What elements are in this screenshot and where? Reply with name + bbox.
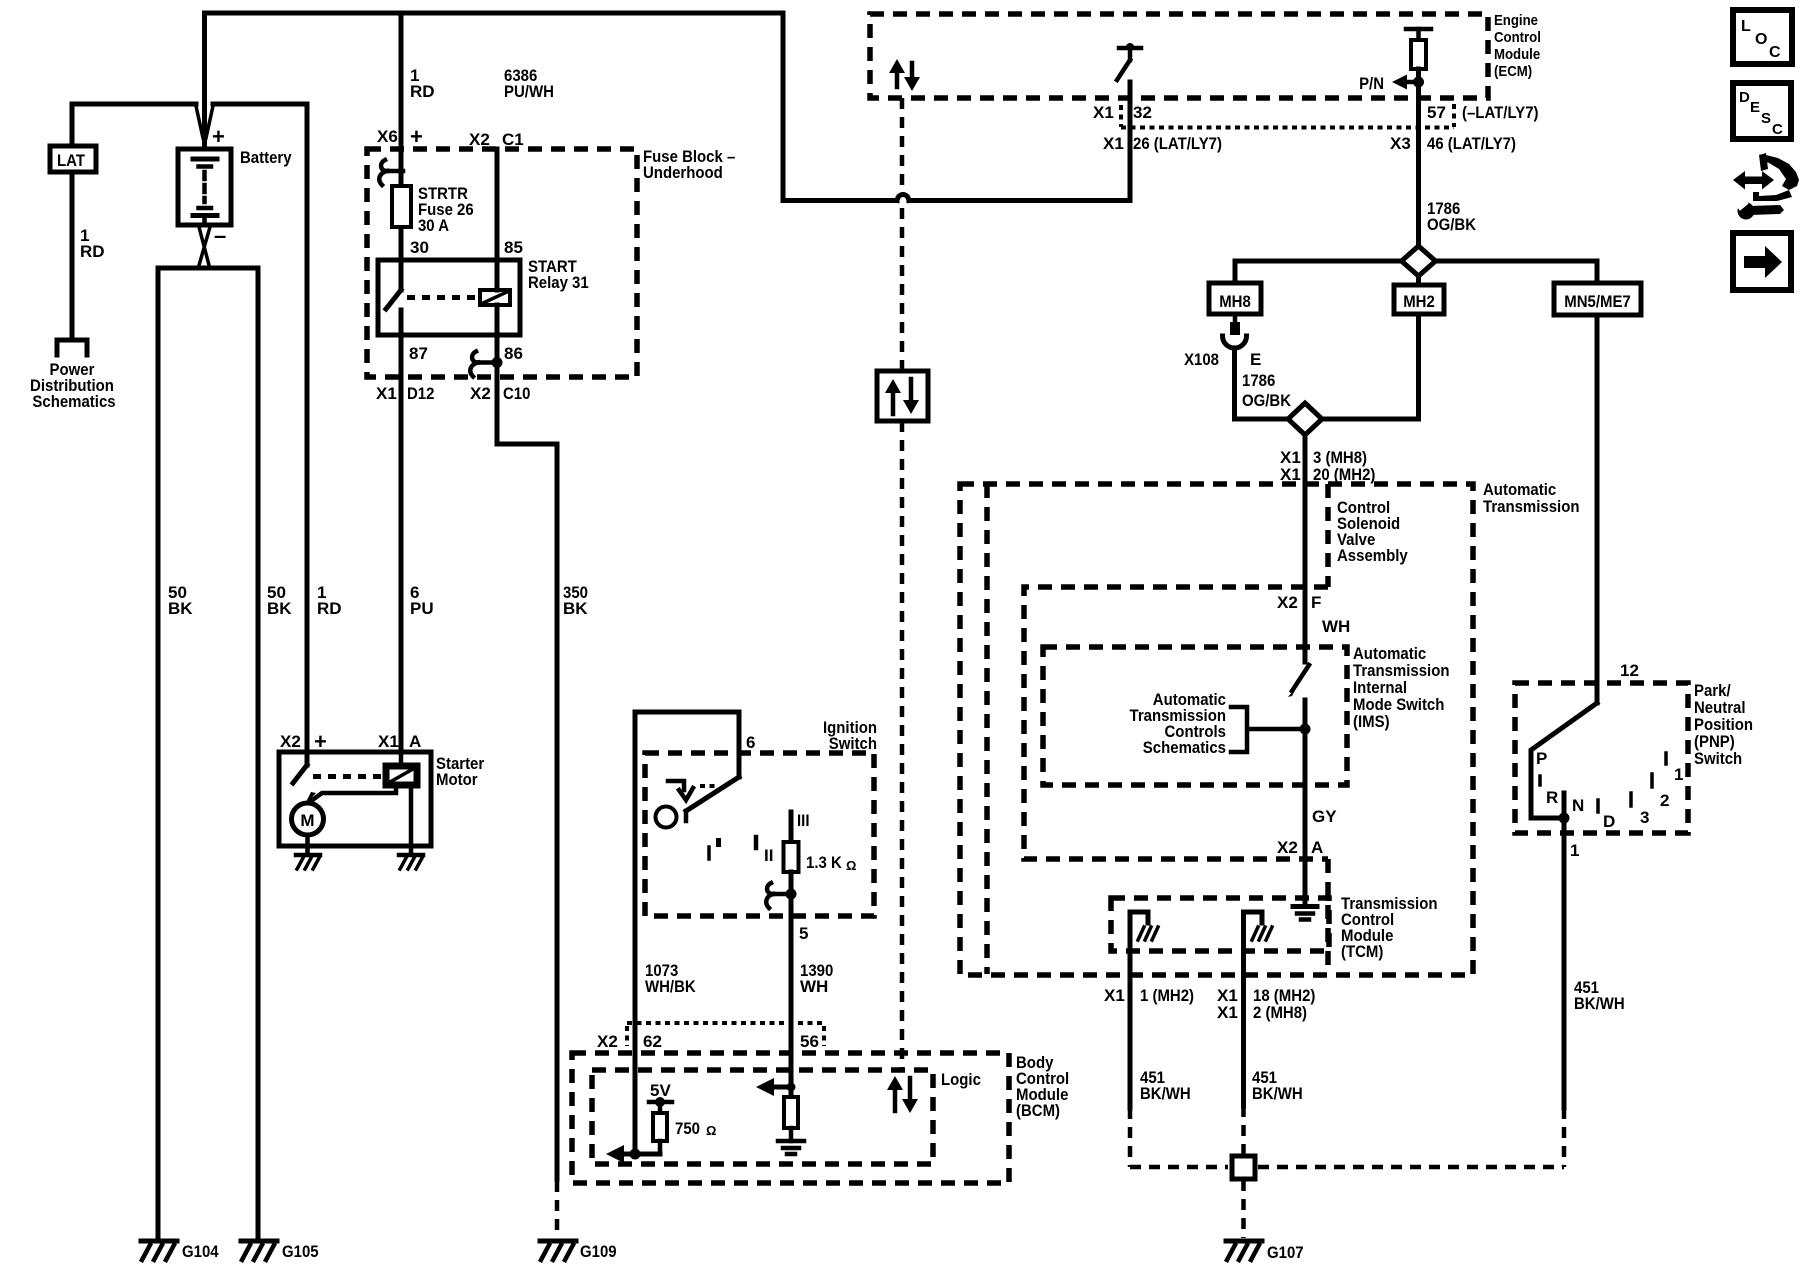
connector X108 inline [1223, 314, 1247, 348]
svg-text:RD: RD [80, 242, 105, 261]
BCM logic dashed box [592, 1070, 933, 1164]
label X1 32 (pin) [1093, 103, 1152, 122]
ignition key symbol [656, 781, 718, 828]
svg-text:+: + [314, 729, 327, 754]
control solenoid valve assembly dashed outline [987, 484, 1328, 974]
svg-text:Schematics: Schematics [1143, 738, 1226, 757]
label Transmission Control Module (TCM) [1341, 894, 1438, 961]
label X2 (BCM connector) [597, 1032, 618, 1051]
serial data dashed line from ECM [900, 98, 905, 371]
svg-text:Assembly: Assembly [1337, 546, 1408, 565]
svg-text:S: S [1761, 110, 1771, 127]
svg-text:BK: BK [563, 599, 588, 618]
svg-text:BK/WH: BK/WH [1252, 1084, 1303, 1103]
label 50 BK (G105 wire) [267, 583, 292, 618]
wire LAT horizontal y104 [72, 102, 307, 107]
label Engine Control Module (ECM) [1494, 12, 1541, 80]
wire 1 RD to starter X2 x307 [305, 104, 310, 752]
svg-text:C10: C10 [503, 384, 530, 403]
label 1786 OG/BK (lower) [1242, 371, 1292, 410]
label pin 56 [800, 1032, 819, 1051]
label X2 A (pin) [1277, 838, 1323, 857]
label X1 26 (LAT/LY7) (pin) [1103, 134, 1222, 153]
svg-text:X1: X1 [1103, 134, 1124, 153]
svg-text:MN5/ME7: MN5/ME7 [1564, 292, 1631, 311]
svg-text:Switch: Switch [1694, 749, 1742, 768]
svg-text:1: 1 [1674, 765, 1683, 784]
svg-text:G104: G104 [182, 1242, 219, 1261]
serial data up/down arrows in ECM [889, 59, 920, 91]
svg-text:P/N: P/N [1359, 74, 1384, 93]
svg-text:X2: X2 [597, 1032, 618, 1051]
svg-text:Transmission: Transmission [1483, 497, 1580, 516]
wire IMS output x1305 [1303, 700, 1308, 905]
svg-text:1.3 K: 1.3 K [806, 853, 842, 872]
svg-text:X1: X1 [1093, 103, 1114, 122]
svg-text:Motor: Motor [436, 770, 478, 789]
connector hook at X6 [379, 160, 403, 185]
ground G107 [1226, 1241, 1304, 1262]
label pin 62 [643, 1032, 662, 1051]
switch crank request inside ECM [1117, 43, 1141, 80]
svg-text:32: 32 [1133, 103, 1152, 122]
label Ignition Switch [823, 718, 877, 753]
label pin 30 [410, 238, 429, 257]
svg-text:L: L [1741, 18, 1751, 35]
svg-text:RD: RD [317, 599, 342, 618]
svg-text:–: – [214, 223, 226, 248]
label 350 BK [563, 583, 588, 618]
label X2 C10 (pin) [470, 384, 530, 403]
contact tick 3 [1629, 793, 1633, 806]
connector MH8 box [1209, 283, 1261, 314]
wire 50 BK to G104 [156, 268, 161, 1240]
label Automatic Transmission Internal Mode Switch (IMS) [1353, 644, 1450, 731]
starter motor box [279, 752, 431, 853]
svg-text:LAT: LAT [57, 151, 86, 170]
svg-text:Module: Module [1494, 46, 1540, 63]
ground starter motor case left [296, 855, 320, 869]
wire MH2 to lower splice [1416, 314, 1421, 419]
node PNP N contact [1559, 793, 1570, 824]
svg-text:30: 30 [410, 238, 429, 257]
resistor 750 Ohm [653, 1113, 667, 1154]
wire 451 BK/WH from PNP x1564 [1562, 818, 1567, 1108]
svg-text:RD: RD [410, 82, 435, 101]
svg-text:P: P [1536, 749, 1547, 768]
svg-text:56: 56 [800, 1032, 819, 1051]
svg-text:X2: X2 [469, 130, 490, 149]
node battery + clamp V [196, 106, 213, 138]
label 1390 WH [800, 961, 833, 996]
svg-text:X6: X6 [377, 127, 398, 146]
icon forward arrow box [1733, 233, 1791, 290]
svg-text:D12: D12 [407, 384, 434, 403]
svg-text:G105: G105 [282, 1242, 319, 1261]
svg-text:C: C [1772, 121, 1783, 138]
wire BCM signal out with left arrow [606, 1145, 660, 1163]
svg-text:III: III [797, 811, 810, 830]
svg-text:1: 1 [1570, 841, 1579, 860]
ground G104 [141, 1241, 219, 1261]
label X108 E [1184, 350, 1261, 369]
label 6 PU [410, 583, 434, 618]
svg-text:750: 750 [675, 1119, 700, 1138]
label battery plus [212, 124, 225, 149]
label X2 F (pin) [1277, 593, 1321, 612]
connector hook below resistor [766, 883, 796, 908]
ground TCM case left [1138, 927, 1158, 940]
ECM dashed box [870, 14, 1488, 98]
label X1 D12 (pin) [376, 384, 434, 403]
svg-text:X2: X2 [1277, 838, 1298, 857]
svg-text:C1: C1 [502, 130, 524, 149]
label 1 RD (fuse feed) [410, 66, 435, 101]
label X1 18 (MH2) / X1 2 (MH8) (pins) [1217, 986, 1315, 1022]
resistor 1.3 KOhm [784, 812, 799, 916]
wire ground net dashed middle drop [1241, 1106, 1246, 1158]
svg-text:85: 85 [504, 238, 523, 257]
svg-text:X2: X2 [1277, 593, 1298, 612]
svg-text:GY: GY [1312, 807, 1337, 826]
label 1.3 KOhm [806, 853, 856, 873]
svg-text:MH2: MH2 [1403, 292, 1435, 311]
connector MH2 box [1394, 285, 1444, 314]
svg-text:1 (MH2): 1 (MH2) [1140, 986, 1194, 1005]
label 6386 PU/WH [504, 66, 554, 101]
label N [1572, 796, 1584, 815]
svg-text:MH8: MH8 [1219, 292, 1251, 311]
label pin 6 [746, 733, 755, 752]
label 3 [1640, 808, 1649, 827]
label Logic [941, 1070, 981, 1089]
serial data dashed line to BCM [900, 421, 905, 1070]
contact tick 1 [1664, 753, 1668, 764]
node P/N arrow inside ECM [1359, 74, 1424, 93]
label Park/Neutral Position (PNP) Switch [1694, 681, 1753, 768]
label STRTR Fuse 26 30 A [418, 184, 474, 235]
svg-text:62: 62 [643, 1032, 662, 1051]
ground TCM case right [1252, 927, 1272, 940]
wire 350 BK vertical x557 [555, 444, 560, 1179]
svg-text:E: E [1750, 99, 1760, 116]
BCM outer dashed box [572, 1053, 1009, 1183]
svg-text:X1: X1 [376, 384, 397, 403]
svg-text:Control: Control [1494, 29, 1541, 46]
label D [1603, 812, 1615, 831]
label II [764, 846, 773, 865]
wire ground net dashed horizontal bus [1130, 1165, 1564, 1170]
battery B1 [178, 149, 231, 225]
label GY [1312, 807, 1337, 826]
icon DESC box [1733, 83, 1791, 139]
wire 1 RD / 6 PU main vertical x401 [399, 13, 404, 752]
wire MN5/ME7 drop [1595, 261, 1600, 283]
splice block S107 [1232, 1156, 1255, 1179]
label 57 (-LAT/LY7) (pin) [1427, 103, 1539, 122]
ground starter solenoid case right [399, 855, 423, 869]
splice diamond lower [1288, 403, 1322, 435]
switch PNP wiper P contact [1531, 703, 1597, 818]
label III [797, 811, 810, 830]
svg-text:WH: WH [1322, 617, 1350, 636]
svg-text:F: F [1311, 593, 1321, 612]
label Body Control Module (BCM) [1016, 1053, 1069, 1120]
ground TCM internal earth [1293, 907, 1317, 920]
label WH [1322, 617, 1350, 636]
connector X2 strip at BCM [627, 1023, 824, 1046]
svg-text:G109: G109 [580, 1242, 617, 1261]
svg-text:A: A [409, 732, 421, 751]
switch IMS blade [1288, 665, 1309, 697]
svg-text:2 (MH8): 2 (MH8) [1253, 1003, 1307, 1022]
svg-text:PU/WH: PU/WH [504, 82, 554, 101]
label R [1546, 788, 1558, 807]
svg-text:Relay 31: Relay 31 [528, 273, 589, 292]
svg-text:87: 87 [409, 344, 428, 363]
wire MH8 drop [1233, 261, 1238, 283]
svg-text:OG/BK: OG/BK [1242, 391, 1292, 410]
label X3 46 (LAT/LY7) (pin) [1390, 134, 1516, 153]
contact tick 2 [1650, 774, 1654, 787]
svg-text:Underhood: Underhood [643, 163, 723, 182]
svg-text:D: D [1739, 89, 1750, 106]
contact tick D [1596, 800, 1600, 812]
label 50 BK (G104 wire) [168, 583, 193, 618]
label 2 [1660, 791, 1669, 810]
wire splice to G107 dashed [1241, 1180, 1246, 1238]
serial data box with arrows [877, 371, 928, 421]
ignition contact tick II [754, 837, 759, 848]
automatic transmission outer dashed box [960, 484, 1473, 975]
connector LAT [50, 146, 96, 172]
label X1 1 (MH2) (pin) [1104, 986, 1194, 1005]
svg-text:2: 2 [1660, 791, 1669, 810]
svg-text:BK/WH: BK/WH [1140, 1084, 1191, 1103]
wire TCM ground 18 (MH2) 2 (MH8) [1244, 912, 1263, 1106]
relay START Relay 31 [378, 260, 520, 335]
label battery minus [214, 223, 226, 248]
wire ground net dashed right drop [1562, 1108, 1567, 1167]
label X2 C1 (pin) [469, 130, 524, 149]
svg-text:C: C [1769, 44, 1781, 61]
label 750 Ohm [675, 1119, 716, 1138]
svg-text:BK/WH: BK/WH [1574, 994, 1625, 1013]
svg-text:Engine: Engine [1494, 12, 1538, 29]
label X1 A (starter pin) [378, 732, 421, 751]
label 451 BK/WH (left) [1140, 1068, 1191, 1103]
TCM dashed box [1111, 898, 1329, 951]
label 1073 WH/BK [645, 961, 696, 996]
svg-text:X2: X2 [470, 384, 491, 403]
svg-text:BK: BK [267, 599, 292, 618]
wire ignition switch feed vertical x635 [633, 712, 638, 1154]
label pin 86 [504, 344, 523, 363]
icon LOC box [1733, 10, 1792, 64]
label Starter Motor [436, 754, 485, 789]
node battery - clamp X [199, 227, 211, 267]
connector hook and junction at pin 86 [470, 352, 502, 377]
svg-text:A: A [1311, 838, 1323, 857]
wire TCM ground 1 (MH2) [1130, 912, 1148, 1108]
label 1 (position) [1674, 765, 1683, 784]
wire ECM pin 26 vertical x1130 [1128, 82, 1133, 201]
label START Relay 31 [528, 257, 589, 292]
svg-text:OG/BK: OG/BK [1427, 215, 1477, 234]
svg-text:(TCM): (TCM) [1341, 942, 1383, 961]
label 451 BK/WH (middle) [1252, 1068, 1303, 1103]
ignition contact tick upper [716, 838, 721, 847]
svg-text:D: D [1603, 812, 1615, 831]
wire battery negative bus y268 [158, 266, 258, 271]
label 12 (pin) [1620, 661, 1639, 680]
svg-text:3: 3 [1640, 808, 1649, 827]
wire 6386 PU/WH vertical drop at x783 and run to ECM pin [783, 13, 1130, 201]
svg-text:+: + [212, 124, 225, 149]
svg-text:X1: X1 [378, 732, 399, 751]
svg-text:Ω: Ω [846, 858, 856, 873]
svg-text:X108: X108 [1184, 350, 1219, 369]
ground G105 [241, 1241, 319, 1261]
svg-text:O: O [1755, 31, 1767, 48]
svg-text:30 A: 30 A [418, 216, 449, 235]
label 451 BK/WH (right) [1574, 978, 1625, 1013]
ignition switch dashed box [645, 753, 874, 916]
svg-text:20 (MH2): 20 (MH2) [1313, 465, 1375, 484]
svg-text:Logic: Logic [941, 1070, 981, 1089]
node IMS junction [1300, 724, 1311, 735]
svg-text:+: + [410, 124, 423, 149]
svg-text:Switch: Switch [829, 734, 877, 753]
wire splice bus y261 [1235, 259, 1597, 264]
wire hop over dashed line at x903 [897, 195, 909, 201]
bracket to controls schematics [1231, 707, 1303, 752]
svg-text:(BCM): (BCM) [1016, 1101, 1060, 1120]
label 1 RD (starter wire) [317, 583, 342, 618]
svg-text:57: 57 [1427, 103, 1446, 122]
wire X108 to lower splice [1235, 348, 1419, 419]
label X1 3 (MH8) / X1 20 (MH2) (pins) [1280, 448, 1375, 484]
svg-text:M: M [300, 811, 314, 830]
resistor BCM pull-down [784, 1087, 798, 1141]
ground G109 [540, 1241, 617, 1261]
svg-text:E: E [1250, 350, 1261, 369]
wire LAT vertical x72 [70, 104, 75, 337]
svg-text:(ECM): (ECM) [1494, 63, 1532, 80]
wire ground net dashed left drop [1128, 1108, 1133, 1167]
svg-text:Schematics: Schematics [32, 392, 115, 411]
label pin 87 [409, 344, 428, 363]
wire MH2 drop [1416, 261, 1421, 285]
splice diamond upper [1402, 246, 1436, 276]
fuse STRTR Fuse 26 30A [392, 186, 411, 227]
svg-text:X1: X1 [1104, 986, 1125, 1005]
svg-text:X3: X3 [1390, 134, 1411, 153]
ignition switch housing solid box [635, 712, 739, 821]
label 1 (PNP pin) [1570, 841, 1579, 860]
supply 5V node [649, 1097, 672, 1113]
label pin 85 [504, 238, 523, 257]
svg-text:1786: 1786 [1242, 371, 1275, 390]
svg-text:BK: BK [168, 599, 193, 618]
label 1786 OG/BK (upper) [1427, 199, 1477, 234]
svg-text:5V: 5V [650, 1081, 671, 1100]
IMS dashed box [1043, 647, 1347, 785]
label Battery [240, 148, 292, 167]
connector tie dotted line pins 32-57 [1121, 104, 1454, 128]
svg-text:X1: X1 [1280, 465, 1301, 484]
label Automatic Transmission [1483, 480, 1580, 516]
svg-text:WH/BK: WH/BK [645, 977, 696, 996]
svg-text:G107: G107 [1267, 1243, 1304, 1262]
wire battery positive post vertical [202, 13, 207, 149]
label 5V [650, 1081, 671, 1100]
label P [1536, 749, 1547, 768]
svg-text:WH: WH [800, 977, 828, 996]
svg-text:26 (LAT/LY7): 26 (LAT/LY7) [1133, 134, 1222, 153]
svg-text:12: 12 [1620, 661, 1639, 680]
label Fuse Block - Underhood [643, 147, 735, 182]
label X6 + (pin) [377, 124, 423, 149]
svg-text:X1: X1 [1217, 1003, 1238, 1022]
label X2 + (starter pin) [280, 729, 327, 754]
svg-text:Ω: Ω [706, 1123, 716, 1138]
fuse block underhood dashed box [367, 149, 637, 377]
wire 50 BK to G105 [256, 268, 261, 1240]
resistor ECM pull-up [1406, 29, 1431, 246]
svg-text:N: N [1572, 796, 1584, 815]
ignition contact tick I [707, 847, 711, 859]
svg-text:46 (LAT/LY7): 46 (LAT/LY7) [1427, 134, 1516, 153]
label Control Solenoid Valve Assembly [1337, 498, 1408, 565]
svg-text:X2: X2 [280, 732, 301, 751]
wire 6386 PU/WH C1 vertical x497 [497, 149, 557, 444]
ground BCM internal [778, 1141, 804, 1154]
svg-text:(–LAT/LY7): (–LAT/LY7) [1462, 103, 1539, 122]
svg-text:5: 5 [799, 924, 808, 943]
icon wrench with arrows [1733, 153, 1799, 220]
svg-text:(IMS): (IMS) [1353, 712, 1390, 731]
wire 1390 WH x791 to BCM [789, 916, 794, 1087]
wire 350 BK dashed segment to G109 [555, 1181, 560, 1238]
svg-text:PU: PU [410, 599, 434, 618]
label 1 RD (LAT wire) [80, 226, 105, 261]
PNP switch dashed box [1515, 683, 1688, 833]
connector MN5/ME7 box [1554, 283, 1641, 315]
svg-text:86: 86 [504, 344, 523, 363]
label pin 5 [799, 924, 808, 943]
svg-text:II: II [764, 846, 773, 865]
label Power Distribution Schematics [30, 360, 116, 411]
wire battery+ top horizontal to fuse block and C1 [205, 11, 784, 16]
svg-text:R: R [1546, 788, 1558, 807]
wire IMS feed x1305 [1303, 419, 1308, 662]
connector Power Distribution stub [57, 340, 87, 355]
svg-text:Battery: Battery [240, 148, 292, 167]
wire MN5/ME7 to PNP x1597 [1595, 315, 1600, 703]
svg-text:6: 6 [746, 733, 755, 752]
label Automatic Transmission Controls Schematics [1130, 690, 1227, 757]
serial data up/down arrows in BCM [887, 1076, 918, 1113]
wire BCM crank request left arrow [756, 1078, 796, 1096]
contact tick R [1538, 776, 1542, 785]
